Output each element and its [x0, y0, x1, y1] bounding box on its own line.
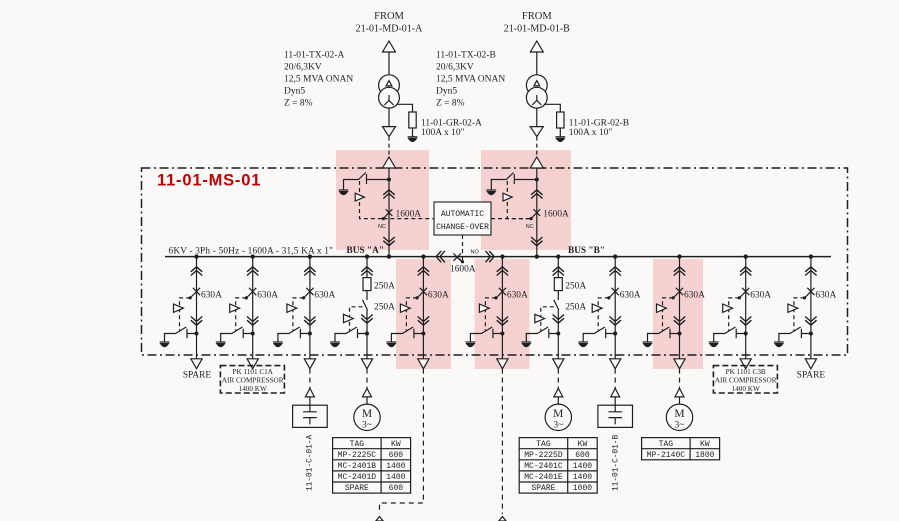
protection relay arrow F3: [287, 304, 297, 312]
drawout chevrons feeder FA lower: [361, 315, 372, 324]
svg-text:250A: 250A: [374, 282, 395, 292]
outgoing terminal arrow F1: [191, 359, 202, 369]
svg-text:MC-2401E: MC-2401E: [524, 473, 563, 482]
wire feeder F3 drop from bus: [309, 257, 311, 359]
circuit breaker incomer INC-B 1600A: [530, 209, 541, 220]
svg-text:630A: 630A: [257, 291, 278, 301]
svg-text:MP-2225D: MP-2225D: [524, 451, 563, 460]
table load schedule C: [642, 438, 720, 460]
drawout chevrons incomer INC-A upper: [383, 190, 394, 199]
protection relay arrow F1: [174, 304, 184, 312]
wire T-B LV: [536, 108, 538, 127]
svg-text:MP-2225C: MP-2225C: [338, 451, 377, 460]
bus junction nodes: [194, 254, 813, 258]
earth switch F10: [779, 327, 811, 342]
wire motor MP to motor: [366, 397, 368, 404]
node junction F5 earth tap: [500, 332, 504, 336]
wire dashed trip line INC-B: [507, 181, 531, 219]
node junction F9 earth tap: [744, 332, 748, 336]
automatic change-over controller: [434, 202, 491, 235]
ground INC-B: [486, 190, 496, 195]
wire T-B resistor to ground: [559, 128, 561, 137]
protection relay arrow F10: [788, 304, 798, 312]
transformer branch B: [504, 11, 629, 157]
svg-text:MP-2140C: MP-2140C: [647, 451, 686, 460]
protection relay arrow F2: [230, 304, 240, 312]
motor motor MB2 M 3~: [666, 404, 692, 430]
circuit breaker F1 630A: [189, 288, 201, 300]
svg-text:11-01-C-01-B: 11-01-C-01-B: [613, 435, 621, 491]
transformer branch A: [356, 11, 482, 157]
svg-text:12,5 MVA ONAN: 12,5 MVA ONAN: [436, 75, 505, 85]
drawout chevrons feeder FB upper: [553, 267, 564, 276]
earth switch FB: [526, 327, 558, 342]
drawout chevrons feeder F9 upper: [740, 267, 751, 276]
wire dashed feeder F5 outgoing: [501, 369, 503, 514]
svg-text:1400: 1400: [386, 473, 405, 482]
outgoing terminal arrow F5: [497, 359, 508, 369]
earth switch F8: [648, 327, 680, 342]
bus tie drawout chevrons right: [486, 251, 495, 262]
svg-text:630A: 630A: [428, 291, 449, 301]
svg-text:SPARE: SPARE: [797, 371, 826, 381]
cable terminal arrow motor MP: [363, 388, 372, 397]
wire dashed ACO to bus tie: [462, 235, 464, 261]
wire FA fuse to contactor: [366, 291, 368, 300]
wire T-B HV: [536, 52, 538, 75]
feeder bay F6 630A: [578, 257, 640, 369]
wire incomer INC-B main: [536, 168, 538, 257]
svg-text:3~: 3~: [675, 421, 685, 431]
outgoing arrow T-A: [383, 127, 396, 137]
incoming terminal arrow INC-B: [530, 157, 543, 168]
wire feeder F2 drop from bus: [252, 257, 254, 359]
ground F10: [774, 342, 784, 347]
drawout chevrons feeder F4 upper: [418, 267, 429, 276]
wire T-A LV: [388, 108, 390, 127]
svg-text:BUS "B": BUS "B": [568, 246, 605, 256]
cable continuation arrow F5: [499, 517, 506, 521]
protection relay arrow F5: [479, 304, 489, 312]
circuit breaker F8 630A: [672, 288, 684, 300]
svg-text:Z = 8%: Z = 8%: [284, 99, 313, 109]
wire dashed motor MP outgoing: [366, 369, 368, 389]
wire dashed F6 outgoing: [614, 369, 616, 389]
outgoing arrow T-B: [530, 127, 543, 137]
incomer bay B: [486, 157, 569, 257]
highlight feeder F5: [475, 259, 530, 369]
load box F9 C3B: [713, 366, 777, 393]
circuit breaker F10 630A: [803, 288, 815, 300]
node junction INC-A earth tap: [387, 178, 391, 182]
highlight incomer B: [481, 150, 571, 250]
wire dashed T-B to switchgear: [536, 137, 538, 157]
wire T-A neutral tap: [396, 104, 412, 112]
incoming line arrow T-B: [530, 41, 543, 52]
load box F2 C1A: [220, 366, 284, 393]
wire dashed trip line F8: [663, 298, 674, 331]
wire dashed ACO to incomer B breaker: [491, 218, 531, 220]
svg-text:CHANGE-OVER: CHANGE-OVER: [436, 223, 489, 232]
circuit breaker F5 630A: [494, 288, 506, 300]
feeder bay F-VT-A fused 250A: [330, 257, 395, 369]
svg-text:KW: KW: [578, 440, 588, 449]
nameplate label 11-01-TX-02-A: [284, 51, 353, 109]
feeder bay F4 630A: [387, 257, 449, 369]
svg-text:1600A: 1600A: [543, 210, 569, 220]
wire feeder F5 drop from bus: [501, 257, 503, 359]
protection relay arrow INC-B: [503, 193, 512, 201]
wire dashed trip line F4: [406, 298, 417, 331]
fuse FB 250A: [554, 278, 562, 291]
resistor 11-01-GR-02-B: [557, 112, 564, 128]
protection relay arrow FB: [535, 314, 545, 322]
switchgear enclosure 11-01-MS-01 boundary: [142, 168, 848, 355]
svg-text:600: 600: [575, 451, 590, 460]
outgoing terminal arrow F10: [805, 359, 816, 369]
drawout chevrons incomer INC-B lower: [531, 237, 542, 246]
protection relay arrow F8: [657, 304, 667, 312]
feeder bay F-VT-B fused 250A: [521, 257, 586, 369]
drawout chevrons feeder F1 lower: [191, 317, 202, 326]
motor motor MP M 3~: [354, 404, 380, 430]
svg-text:250A: 250A: [374, 303, 395, 313]
node junction F8 earth tap: [678, 332, 682, 336]
wire FB fuse to contactor: [557, 291, 559, 300]
ground neutral T-B: [555, 137, 565, 142]
svg-text:Dyn5: Dyn5: [436, 87, 457, 97]
wire dashed trip line F6: [598, 298, 609, 331]
wire dashed ACO to incomer A breaker: [383, 218, 434, 220]
node junction INC-B earth tap: [535, 178, 539, 182]
svg-text:SPARE: SPARE: [345, 484, 369, 493]
earth switch F9: [714, 327, 746, 342]
cable continuation arrow F4: [376, 517, 383, 521]
resistor 11-01-GR-02-A: [409, 112, 416, 128]
drawout chevrons feeder F6 upper: [610, 267, 621, 276]
outgoing terminal arrow FB: [553, 359, 564, 369]
svg-text:AIR COMPRESSOR: AIR COMPRESSOR: [715, 377, 777, 385]
svg-text:1400: 1400: [573, 473, 592, 482]
wire T-A resistor to ground: [412, 128, 414, 137]
svg-text:AIR COMPRESSOR: AIR COMPRESSOR: [222, 377, 284, 385]
svg-text:630A: 630A: [314, 291, 335, 301]
svg-text:BUS "A": BUS "A": [347, 246, 384, 256]
wire dashed F3 outgoing: [309, 369, 311, 389]
ground FB: [521, 342, 531, 347]
earth switch INC-A: [344, 173, 390, 190]
node junction F6 earth tap: [613, 332, 617, 336]
earth switch FA: [335, 327, 367, 342]
node junction FA earth tap: [365, 332, 369, 336]
highlight feeder F4: [396, 259, 451, 369]
drawout chevrons feeder F5 upper: [497, 267, 508, 276]
capacitor unit F6: [598, 405, 633, 427]
svg-text:630A: 630A: [750, 291, 771, 301]
ground F4: [387, 342, 397, 347]
drawout chevrons feeder F2 lower: [247, 317, 258, 326]
svg-text:1400: 1400: [386, 462, 405, 471]
svg-text:MC-2401B: MC-2401B: [338, 462, 377, 471]
highlight incomer A: [336, 150, 429, 250]
svg-text:TAG: TAG: [659, 440, 674, 449]
circuit breaker F4 630A: [415, 288, 427, 300]
ground F8: [643, 342, 653, 347]
feeder bay F10 630A: [774, 257, 836, 369]
node junction F3 earth tap: [308, 332, 312, 336]
wire feeder F9 drop from bus: [745, 257, 747, 359]
drawout chevrons feeder F8 lower: [674, 317, 685, 326]
drawout chevrons incomer INC-B upper: [531, 190, 542, 199]
feeder bay F5 630A: [466, 257, 528, 369]
wire dashed trip line FA: [350, 307, 363, 331]
svg-text:600: 600: [389, 484, 404, 493]
wire dashed trip line F5: [485, 298, 496, 331]
svg-text:FROM: FROM: [374, 11, 404, 22]
svg-text:TAG: TAG: [536, 440, 551, 449]
drawout chevrons feeder F5 lower: [497, 317, 508, 326]
wire feeder F6 drop from bus: [614, 257, 616, 359]
wire dashed trip line INC-A: [360, 181, 384, 219]
wire feeder F8 drop from bus: [679, 257, 681, 359]
incoming line arrow T-A: [383, 41, 396, 52]
earth switch INC-B: [491, 173, 537, 190]
svg-text:1400 KW: 1400 KW: [239, 385, 267, 393]
svg-text:21-01-MD-01-B: 21-01-MD-01-B: [504, 24, 570, 35]
drawout chevrons incomer INC-A lower: [383, 237, 394, 246]
wire feeder F10 drop from bus: [810, 257, 812, 359]
drawout chevrons feeder F3 upper: [304, 267, 315, 276]
highlight feeder F8: [653, 259, 703, 369]
wire feeder FB drop from bus: [557, 257, 559, 278]
cable terminal arrow motor MB2: [675, 388, 684, 397]
svg-text:12,5 MVA ONAN: 12,5 MVA ONAN: [284, 75, 353, 85]
feeder bay F2 630A: [216, 257, 278, 369]
svg-text:PK 1101 C1A: PK 1101 C1A: [232, 368, 273, 376]
protection relay arrow FA: [344, 314, 354, 322]
node junction F2 earth tap: [251, 332, 255, 336]
svg-text:630A: 630A: [507, 291, 528, 301]
outgoing terminal arrow F3: [304, 359, 315, 369]
cable terminal arrow F3: [305, 388, 314, 397]
feeder bay F1 630A: [160, 257, 222, 369]
circuit breaker incomer INC-A 1600A: [382, 209, 393, 220]
table load schedule B: [519, 438, 597, 494]
drawout chevrons feeder FA upper: [361, 267, 372, 276]
wire incomer INC-A main: [388, 168, 390, 257]
outgoing terminal arrow F4: [418, 359, 429, 369]
ground neutral T-A: [408, 137, 418, 142]
wire feeder F1 drop from bus: [196, 257, 198, 359]
cable terminal arrow F6: [611, 388, 620, 397]
drawout chevrons feeder F8 upper: [674, 267, 685, 276]
circuit breaker F3 630A: [302, 288, 314, 300]
contactor switch FA 250A: [363, 300, 368, 310]
svg-text:MC-2401C: MC-2401C: [524, 462, 563, 471]
node junction F10 earth tap: [809, 332, 813, 336]
wire T-A HV: [388, 52, 390, 75]
protection relay arrow F9: [723, 304, 733, 312]
wire dashed trip line F2: [236, 298, 247, 331]
bus tie drawout chevrons left: [436, 251, 445, 262]
svg-text:M: M: [553, 408, 563, 420]
svg-text:3~: 3~: [362, 421, 372, 431]
wire dashed trip line F1: [180, 298, 191, 331]
wire FA below contactor: [366, 310, 368, 359]
svg-text:M: M: [362, 408, 372, 420]
drawout chevrons feeder F9 lower: [740, 317, 751, 326]
svg-text:11-01-GR-02-A: 11-01-GR-02-A: [421, 119, 482, 129]
svg-text:NO: NO: [471, 250, 480, 256]
svg-text:11-01-MS-01: 11-01-MS-01: [157, 172, 261, 190]
circuit breaker F6 630A: [607, 288, 619, 300]
drawout chevrons feeder F6 lower: [610, 317, 621, 326]
drawout chevrons feeder F10 lower: [805, 317, 816, 326]
svg-text:630A: 630A: [620, 291, 641, 301]
svg-text:NC: NC: [526, 224, 534, 230]
svg-text:600: 600: [389, 451, 404, 460]
wire dashed trip line FB: [541, 307, 554, 331]
feeder bay F9 630A: [709, 257, 771, 369]
ground F2: [216, 342, 226, 347]
svg-text:1600A: 1600A: [450, 265, 476, 275]
outgoing terminal arrow F8: [674, 359, 685, 369]
circuit breaker F9 630A: [738, 288, 750, 300]
ground F5: [466, 342, 476, 347]
svg-text:100A x 10": 100A x 10": [569, 128, 613, 138]
svg-text:21-01-MD-01-A: 21-01-MD-01-A: [356, 24, 423, 35]
drawout chevrons feeder F1 upper: [191, 267, 202, 276]
wire feeder FA drop from bus: [366, 257, 368, 278]
svg-text:250A: 250A: [565, 282, 586, 292]
svg-text:100A x 10": 100A x 10": [421, 128, 465, 138]
feeder bay F8 630A: [643, 257, 705, 369]
svg-text:AUTOMATIC: AUTOMATIC: [441, 210, 484, 219]
node junction FB earth tap: [556, 332, 560, 336]
svg-text:11-01-TX-02-A: 11-01-TX-02-A: [284, 51, 344, 61]
bus tie breaker 1600A: [453, 253, 464, 263]
table load schedule A: [333, 438, 411, 494]
outgoing terminal arrow FA: [361, 359, 372, 369]
ground F3: [273, 342, 283, 347]
svg-text:20/6,3KV: 20/6,3KV: [284, 63, 322, 73]
bus bar conductor: [165, 256, 831, 258]
svg-text:630A: 630A: [684, 291, 705, 301]
svg-text:SPARE: SPARE: [531, 484, 555, 493]
earth switch F6: [583, 327, 615, 342]
svg-text:1800: 1800: [695, 451, 714, 460]
svg-text:FROM: FROM: [522, 11, 552, 22]
protection relay arrow F6: [592, 304, 602, 312]
svg-text:630A: 630A: [201, 291, 222, 301]
svg-text:SPARE: SPARE: [183, 371, 212, 381]
drawout chevrons feeder F2 upper: [247, 267, 258, 276]
ground FA: [330, 342, 340, 347]
svg-text:KW: KW: [391, 440, 401, 449]
outgoing terminal arrow F9: [740, 359, 751, 369]
svg-text:MC-2401D: MC-2401D: [338, 473, 377, 482]
wire F6 to unit: [614, 397, 616, 405]
svg-text:630A: 630A: [815, 291, 836, 301]
ground INC-A: [339, 190, 349, 195]
outgoing terminal arrow F6: [610, 359, 621, 369]
wire T-B neutral tap: [544, 104, 560, 112]
svg-text:PK 1101 C3B: PK 1101 C3B: [726, 368, 766, 376]
wire FB below contactor: [557, 310, 559, 359]
ground F6: [578, 342, 588, 347]
motor motor MB1 M 3~: [545, 404, 571, 430]
wire dashed T-A to switchgear: [388, 137, 390, 157]
svg-text:1400: 1400: [573, 462, 592, 471]
circuit breaker F2 630A: [245, 288, 257, 300]
drawout chevrons feeder F10 upper: [805, 267, 816, 276]
protection relay arrow INC-A: [355, 193, 364, 201]
capacitor unit F3: [293, 405, 328, 427]
wire F3 to unit: [309, 397, 311, 405]
wire dashed trip line F3: [293, 298, 304, 331]
transformer T-B 11-01-TX-02-B: [526, 75, 547, 108]
earth switch F1: [165, 327, 197, 342]
svg-text:KW: KW: [700, 440, 710, 449]
node junction F4 earth tap: [421, 332, 425, 336]
drawout chevrons feeder F3 lower: [304, 317, 315, 326]
ground F9: [709, 342, 719, 347]
earth switch F3: [278, 327, 310, 342]
drawout chevrons feeder FB lower: [553, 315, 564, 324]
incomer bay A: [339, 157, 422, 257]
svg-text:TAG: TAG: [350, 440, 365, 449]
svg-text:11-01-GR-02-B: 11-01-GR-02-B: [569, 119, 629, 129]
wire motor MB2 to motor: [679, 397, 681, 404]
svg-text:1000: 1000: [573, 484, 592, 493]
contactor switch FB 250A: [554, 300, 559, 310]
wire dashed motor MB1 outgoing: [557, 369, 559, 389]
earth switch F5: [470, 327, 502, 342]
svg-text:11-01-TX-02-B: 11-01-TX-02-B: [436, 51, 496, 61]
node junction F1 earth tap: [195, 332, 199, 336]
svg-text:Z = 8%: Z = 8%: [436, 99, 465, 109]
wire dashed feeder F4 outgoing with jog: [380, 369, 424, 514]
svg-text:M: M: [674, 408, 684, 420]
svg-text:1400 KW: 1400 KW: [732, 385, 760, 393]
protection relay arrow F4: [400, 304, 410, 312]
svg-text:3~: 3~: [553, 421, 563, 431]
earth switch F4: [391, 327, 423, 342]
svg-text:250A: 250A: [565, 303, 586, 313]
wire feeder F4 drop from bus: [422, 257, 424, 359]
svg-text:11-01-C-01-A: 11-01-C-01-A: [307, 435, 315, 491]
svg-text:NC: NC: [378, 224, 386, 230]
svg-text:Dyn5: Dyn5: [284, 87, 305, 97]
transformer T-A 11-01-TX-02-A: [379, 75, 400, 108]
cable terminal arrow motor MB1: [554, 388, 563, 397]
svg-text:20/6,3KV: 20/6,3KV: [436, 63, 474, 73]
nameplate label 11-01-TX-02-B: [436, 51, 505, 109]
wire dashed trip line F9: [729, 298, 740, 331]
wire dashed trip line F10: [794, 298, 805, 331]
fuse FA 250A: [363, 278, 371, 291]
incoming terminal arrow INC-A: [383, 157, 396, 168]
outgoing terminal arrow F2: [247, 359, 258, 369]
earth switch F2: [221, 327, 253, 342]
feeder bay F3 630A: [273, 257, 335, 369]
ground F1: [160, 342, 170, 347]
wire dashed motor MB2 outgoing: [679, 369, 681, 389]
drawout chevrons feeder F4 lower: [418, 317, 429, 326]
wire motor MB1 to motor: [557, 397, 559, 404]
